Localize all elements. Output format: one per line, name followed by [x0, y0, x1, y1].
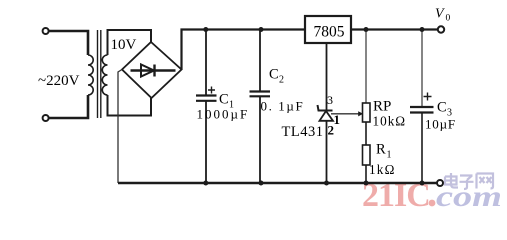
regulator U1 7805 — [305, 16, 351, 43]
capacitor C2 — [250, 30, 305, 184]
svg-text:R: R — [376, 142, 386, 158]
junction: TL431 anode on ground rail — [324, 181, 329, 186]
transformer core — [97, 30, 99, 118]
bottom-right terminal — [437, 180, 443, 186]
transformer T primary winding — [88, 55, 93, 95]
wire: 7805 ground pin down to TL431 — [326, 43, 328, 110]
junction: C3 top on output rail — [420, 27, 425, 32]
wire: top-left terminal to transformer primary — [49, 31, 88, 55]
svg-text:RP: RP — [373, 99, 391, 115]
junction: C2 top on +V rail — [259, 27, 264, 32]
wire: bridge right vertex to top rail — [182, 30, 306, 70]
svg-text:C: C — [269, 67, 279, 83]
capacitor C1 — [196, 30, 249, 184]
watermark 21IC — [362, 177, 430, 214]
anode wire to bottom rail — [326, 121, 328, 183]
svg-text:10kΩ: 10kΩ — [373, 114, 407, 129]
svg-text:1000µF: 1000µF — [197, 107, 250, 122]
char 网 — [477, 174, 494, 189]
svg-text:2: 2 — [328, 123, 335, 138]
svg-text:0: 0 — [446, 14, 451, 24]
TL431 U2 symbol — [318, 93, 341, 183]
char 子 — [460, 176, 474, 190]
bridge rectifier diamond — [122, 42, 182, 98]
primary terminal bottom-left — [43, 115, 49, 121]
primary terminal top-left — [43, 28, 49, 34]
wire: bridge left vertex to bottom rail — [118, 70, 122, 184]
top rail: 7805 output to V0 — [351, 28, 438, 30]
svg-text:2: 2 — [279, 75, 284, 86]
output terminal V0 — [438, 26, 444, 32]
bridge diode — [131, 65, 176, 77]
wire: bottom-left terminal to transformer primary — [49, 95, 88, 118]
wire: secondary bottom to bridge bottom vertex — [108, 95, 152, 116]
transformer secondary winding — [102, 55, 107, 95]
svg-text:C: C — [437, 100, 447, 116]
svg-text:C: C — [219, 92, 229, 108]
svg-text:0. 1µF: 0. 1µF — [261, 99, 305, 114]
svg-text:TL431: TL431 — [282, 124, 324, 140]
wire: secondary top to bridge top vertex — [108, 30, 152, 55]
resistor R1 — [363, 142, 396, 184]
watermark .com — [429, 180, 502, 213]
svg-text:1: 1 — [387, 150, 392, 161]
cathode bar with tick — [318, 105, 333, 111]
svg-text:3: 3 — [327, 93, 333, 107]
bottom rail — [118, 182, 437, 185]
junction: C1 bottom on ground rail — [203, 181, 208, 186]
svg-text:10V: 10V — [111, 37, 137, 53]
char 电 — [445, 173, 458, 188]
svg-text:~220V: ~220V — [38, 73, 80, 89]
triangle — [320, 111, 334, 121]
junction: R1 bottom on ground rail — [364, 181, 369, 186]
potentiometer RP — [363, 30, 407, 146]
svg-text:1kΩ: 1kΩ — [369, 162, 396, 177]
junction: C3 bottom on ground rail — [420, 181, 425, 186]
svg-text:V: V — [435, 7, 445, 22]
junction: C2 bottom on ground rail — [259, 181, 264, 186]
junction: RP top on output rail — [364, 27, 369, 32]
watermark 电子网 — [445, 173, 493, 189]
svg-text:7805: 7805 — [314, 24, 345, 41]
capacitor C3 — [410, 30, 456, 184]
wire: TL431 ref pin to RP wiper — [331, 111, 363, 116]
junction: C1 top on +V rail — [203, 27, 208, 32]
svg-text:10µF: 10µF — [425, 117, 456, 132]
